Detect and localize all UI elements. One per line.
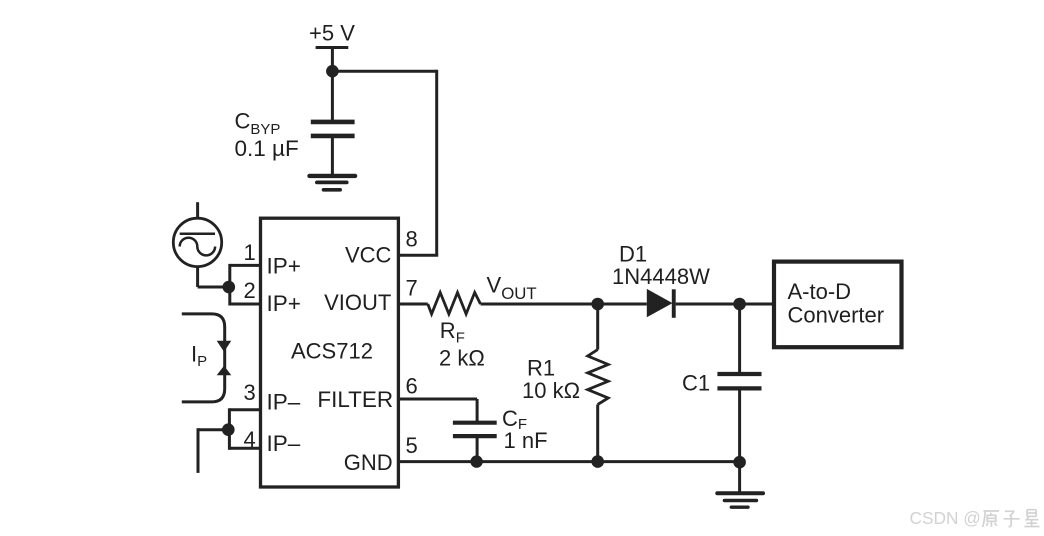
- wire pin 7 stub: [398, 303, 428, 306]
- svg-text:IP–: IP–: [267, 390, 301, 415]
- svg-text:D1: D1: [619, 241, 647, 266]
- ground (below CBYP): [310, 176, 356, 190]
- svg-text:4: 4: [244, 427, 256, 452]
- wire bracket pins 1-2: [230, 264, 261, 306]
- svg-text:6: 6: [406, 374, 418, 399]
- watermark CSDN @yuanzixing: [910, 508, 1040, 528]
- wire bracket pins 3-4: [229, 408, 260, 450]
- svg-text:VIOUT: VIOUT: [324, 290, 391, 315]
- svg-text:VOUT: VOUT: [487, 273, 537, 303]
- node: CF ground junction dot: [470, 455, 482, 467]
- svg-text:FILTER: FILTER: [317, 387, 393, 412]
- pin number 6: [406, 374, 418, 399]
- wire R1 bottom: [596, 405, 599, 462]
- resistor RF: [428, 293, 481, 315]
- svg-text:10 kΩ: 10 kΩ: [522, 378, 580, 403]
- wire junction to right: [332, 70, 436, 73]
- IC pin name VCC (pin 8): [345, 242, 392, 267]
- label D1: [612, 241, 710, 289]
- pin number 5: [406, 433, 418, 458]
- wire pin 8 stub: [398, 254, 438, 257]
- svg-text:CBYP: CBYP: [235, 109, 281, 139]
- node: IP- bracket junction dot: [222, 423, 235, 436]
- svg-text:IP: IP: [191, 342, 207, 371]
- capacitor CF: [453, 423, 497, 436]
- svg-text:5: 5: [406, 433, 418, 458]
- wire pin 6 stub to CF: [398, 399, 477, 423]
- node: VOUT junction dot (R1 tap): [591, 298, 604, 311]
- IC pin name FILTER (pin 6): [317, 387, 393, 412]
- pin number 4: [244, 427, 256, 452]
- svg-text:1N4448W: 1N4448W: [612, 264, 710, 289]
- label CF value: [502, 406, 548, 453]
- svg-text:VCC: VCC: [345, 242, 392, 267]
- svg-text:C1: C1: [682, 371, 710, 396]
- diode D1: [647, 289, 676, 318]
- node: +5V junction dot: [326, 65, 339, 78]
- IC pin name VIOUT (pin 7): [324, 290, 391, 315]
- resistor R1: [588, 350, 609, 405]
- pin number 3: [244, 380, 256, 405]
- wire R1 top: [596, 304, 599, 350]
- node: R1 ground junction dot: [591, 455, 604, 468]
- IC pin name GND (pin 5): [344, 450, 393, 475]
- svg-text:RF: RF: [440, 318, 465, 347]
- +5V rail bar: [316, 46, 349, 49]
- wire from IP- dot left then down: [198, 428, 228, 473]
- svg-text:8: 8: [406, 226, 418, 251]
- svg-text:2: 2: [244, 278, 256, 303]
- label VOUT: [487, 273, 537, 303]
- node: C1 ground junction dot: [733, 456, 746, 469]
- pin number 7: [406, 275, 418, 300]
- IC pin name IP+ (pin 2): [267, 291, 301, 316]
- wire down to pin 8: [435, 70, 438, 256]
- wire C1 bottom to ground: [738, 388, 741, 493]
- svg-text:Converter: Converter: [788, 303, 885, 328]
- svg-text:3: 3: [244, 380, 256, 405]
- ground (bottom right): [717, 493, 763, 507]
- IC pin name IP- (pin 3): [267, 390, 301, 415]
- svg-text:7: 7: [406, 275, 418, 300]
- svg-text:1 nF: 1 nF: [504, 428, 548, 453]
- svg-text:R1: R1: [527, 356, 555, 381]
- svg-text:A-to-D: A-to-D: [788, 279, 852, 304]
- svg-text:IP+: IP+: [267, 254, 301, 279]
- pin number 1: [244, 240, 256, 265]
- wire RF to diode: [481, 303, 647, 306]
- svg-text:IP+: IP+: [267, 291, 301, 316]
- IC label ACS712: [291, 339, 373, 364]
- svg-text:+5 V: +5 V: [309, 21, 355, 46]
- capacitor CBYP: [311, 122, 355, 136]
- wire diode to A-to-D box: [676, 303, 774, 306]
- capacitor C1: [717, 374, 761, 388]
- wire GND rail (pin 5 run): [398, 460, 740, 463]
- pin number 2: [244, 278, 256, 303]
- wire CBYP bottom plate to ground: [331, 136, 334, 176]
- wire current source to IP+ bracket: [198, 286, 230, 289]
- +5 V supply label: [309, 21, 355, 46]
- pin number 8: [406, 226, 418, 251]
- wire +5V bar down to CBYP top plate: [331, 48, 334, 122]
- svg-text:GND: GND: [344, 450, 393, 475]
- svg-text:0.1 µF: 0.1 µF: [235, 136, 299, 161]
- A-to-D converter box: [774, 262, 902, 348]
- wire CF bottom to GND rail: [476, 436, 479, 462]
- svg-text:2 kΩ: 2 kΩ: [439, 345, 485, 370]
- label CBYP value: [235, 109, 299, 162]
- wire C1 top: [738, 304, 741, 374]
- node: C1 junction dot: [733, 298, 746, 311]
- svg-text:CSDN @: CSDN @: [910, 508, 981, 528]
- label IP: [191, 342, 207, 371]
- label RF value: [439, 318, 485, 370]
- label C1: [682, 371, 710, 396]
- current source symbol: [173, 202, 221, 287]
- node: IP+ bracket junction dot: [223, 281, 236, 294]
- svg-text:IP–: IP–: [267, 431, 301, 456]
- IC pin name IP- (pin 4): [267, 431, 301, 456]
- label R1 value: [522, 356, 580, 404]
- svg-text:1: 1: [244, 240, 256, 265]
- svg-text:ACS712: ACS712: [291, 339, 373, 364]
- IC pin name IP+ (pin 1): [267, 254, 301, 279]
- IC U1 ACS712 body: [261, 218, 399, 487]
- IP current arrow loop: [182, 314, 232, 402]
